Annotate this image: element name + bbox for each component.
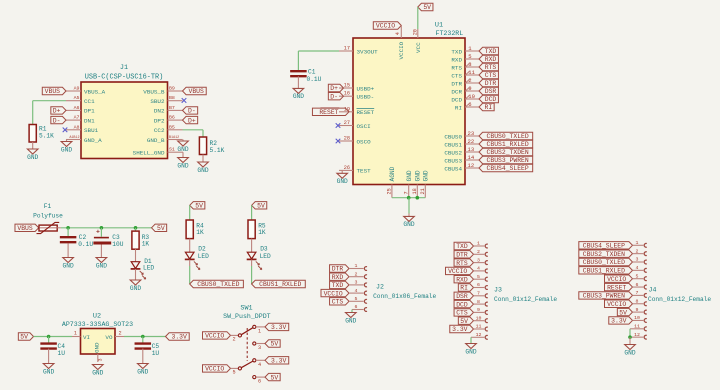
svg-text:GND: GND [177,146,188,153]
svg-text:5.1K: 5.1K [39,133,54,140]
svg-text:DCD: DCD [456,301,468,308]
svg-text:26: 26 [344,165,350,171]
svg-text:Conn_01x06_Female: Conn_01x06_Female [373,293,436,300]
svg-text:Conn_01x12_Female: Conn_01x12_Female [494,296,557,303]
svg-text:CTS: CTS [485,72,497,79]
svg-text:U1: U1 [435,22,443,30]
svg-text:25: 25 [387,188,393,194]
svg-text:4: 4 [258,362,261,368]
svg-text:LED: LED [198,253,209,260]
svg-text:7: 7 [477,291,480,297]
svg-text:3.3V: 3.3V [611,318,627,325]
svg-text:2: 2 [119,331,122,337]
svg-text:D3: D3 [260,245,268,252]
svg-text:B1A12: B1A12 [169,136,179,140]
svg-text:B8: B8 [169,95,175,101]
svg-text:8: 8 [636,298,639,304]
svg-text:3: 3 [355,280,358,286]
svg-text:GND: GND [137,368,148,375]
svg-text:1U: 1U [58,350,66,357]
svg-text:B7: B7 [169,105,175,111]
svg-text:5V: 5V [20,334,28,341]
svg-text:AGND: AGND [389,166,396,181]
svg-text:VBUS: VBUS [188,88,204,95]
svg-text:AP7333-33SAG_SOT23: AP7333-33SAG_SOT23 [62,321,133,328]
svg-text:DSR: DSR [485,88,497,95]
svg-text:6: 6 [258,379,261,385]
svg-text:TXD: TXD [332,282,344,289]
svg-text:10: 10 [468,93,475,100]
svg-text:CTS: CTS [456,310,468,317]
svg-text:20: 20 [413,29,419,35]
svg-text:2: 2 [232,336,235,342]
svg-text:RESET: RESET [607,284,626,291]
svg-text:VBUS_B: VBUS_B [143,88,165,95]
svg-text:28: 28 [344,136,350,142]
svg-text:CBUS3_PWREN: CBUS3_PWREN [487,157,529,164]
svg-text:USBD-: USBD- [357,94,375,101]
svg-text:GND: GND [27,154,38,161]
svg-text:14: 14 [468,154,475,161]
svg-text:D-: D- [330,93,338,100]
svg-text:GND: GND [465,348,476,355]
svg-text:C3: C3 [112,234,120,241]
svg-text:RXD: RXD [485,56,497,63]
svg-text:F1: F1 [44,203,52,210]
svg-text:GND: GND [423,170,430,181]
svg-text:RI: RI [485,104,493,111]
svg-text:13: 13 [468,146,475,153]
svg-text:DN1: DN1 [84,117,95,124]
svg-text:RI: RI [455,104,462,111]
svg-text:3.3V: 3.3V [271,324,287,331]
svg-text:1K: 1K [258,229,266,236]
svg-text:DP2: DP2 [154,117,165,124]
svg-text:B6: B6 [169,115,175,121]
svg-text:6: 6 [636,282,639,288]
svg-text:TXD: TXD [485,48,497,55]
svg-text:C2: C2 [79,234,87,241]
svg-text:CC1: CC1 [84,98,95,105]
svg-text:CBUS2_TXDEN: CBUS2_TXDEN [487,149,529,156]
svg-text:RXD: RXD [332,274,344,281]
svg-text:B5: B5 [169,124,175,130]
svg-text:DN2: DN2 [154,108,165,115]
svg-text:Conn_01x12_Female: Conn_01x12_Female [648,296,711,303]
svg-text:DP1: DP1 [84,108,95,115]
svg-text:B9: B9 [169,86,175,92]
svg-text:22: 22 [468,138,475,145]
svg-text:VI: VI [83,334,90,341]
svg-text:CBUS1: CBUS1 [444,141,462,148]
svg-text:J4: J4 [649,287,657,294]
svg-text:USBD+: USBD+ [357,85,375,92]
svg-text:5.1K: 5.1K [210,147,225,154]
svg-text:CBUS1_RXLED: CBUS1_RXLED [487,141,529,148]
svg-text:5: 5 [355,296,358,302]
svg-text:2: 2 [636,248,639,254]
svg-text:4: 4 [636,265,639,271]
svg-text:TXD: TXD [451,48,462,55]
svg-text:4: 4 [355,288,358,294]
svg-text:8: 8 [477,299,480,305]
svg-text:D+: D+ [188,117,196,124]
svg-text:5V: 5V [271,341,279,348]
svg-text:5V: 5V [195,203,203,210]
svg-text:5V: 5V [257,203,265,210]
svg-text:DCR: DCR [451,88,462,95]
svg-text:RXD: RXD [456,276,468,283]
svg-text:3.3V: 3.3V [271,358,287,365]
svg-text:23: 23 [468,130,475,137]
svg-text:DTR: DTR [456,252,468,259]
svg-text:OSCO: OSCO [357,138,372,145]
svg-text:VBUS: VBUS [45,88,61,95]
svg-text:1: 1 [258,328,261,334]
svg-text:18: 18 [412,188,418,194]
svg-text:GND: GND [61,146,72,153]
svg-text:3: 3 [636,257,639,263]
svg-text:GND: GND [345,317,356,324]
svg-text:4: 4 [395,32,401,35]
svg-text:CTS: CTS [451,72,462,79]
svg-text:1: 1 [477,241,480,247]
svg-text:C1: C1 [308,69,316,76]
svg-text:3V3OUT: 3V3OUT [357,48,379,55]
svg-text:5V: 5V [271,374,279,381]
svg-text:A1B12: A1B12 [69,136,79,140]
svg-text:DCD: DCD [451,96,462,103]
svg-text:4: 4 [477,266,480,272]
svg-text:6: 6 [355,304,358,310]
svg-text:GND: GND [43,368,54,375]
svg-text:12: 12 [476,332,482,338]
svg-text:VBUS_A: VBUS_A [84,88,106,95]
svg-text:3.3V: 3.3V [452,326,468,333]
svg-text:17: 17 [344,46,350,52]
svg-text:GND: GND [293,93,304,100]
svg-text:VO: VO [105,334,113,341]
svg-text:A6: A6 [74,105,80,111]
svg-text:Polyfuse: Polyfuse [33,212,63,219]
svg-text:U2: U2 [93,313,101,321]
svg-text:VCCIO: VCCIO [607,301,626,308]
svg-text:J2: J2 [376,284,384,291]
svg-text:16: 16 [344,91,350,97]
svg-text:A5: A5 [74,95,80,101]
svg-text:SBU1: SBU1 [84,127,99,134]
svg-text:3.3V: 3.3V [171,334,187,341]
svg-text:5V: 5V [460,318,468,325]
svg-text:3: 3 [97,358,103,361]
svg-text:RTS: RTS [451,64,462,71]
svg-text:CBUS3: CBUS3 [444,157,462,164]
svg-text:7: 7 [404,191,410,194]
svg-text:C5: C5 [152,343,160,350]
svg-text:LED: LED [143,265,154,272]
svg-text:D-: D- [53,117,61,124]
svg-text:0.1U: 0.1U [307,76,322,83]
svg-text:LED: LED [260,253,271,260]
svg-text:GND: GND [93,342,100,353]
svg-text:RESET: RESET [319,109,338,116]
svg-text:J3: J3 [494,287,502,294]
svg-text:10: 10 [634,315,640,321]
svg-text:9: 9 [636,307,639,313]
svg-text:15: 15 [344,83,350,89]
svg-text:VCCIO: VCCIO [205,366,224,373]
svg-text:DCD: DCD [485,96,497,103]
svg-text:VCCIO: VCCIO [448,268,467,275]
svg-text:DTR: DTR [485,80,497,87]
svg-text:5V: 5V [157,225,165,232]
svg-text:GND: GND [337,178,348,185]
svg-text:12: 12 [634,332,640,338]
svg-text:5: 5 [477,274,480,280]
svg-text:D2: D2 [198,245,206,252]
svg-text:VCCIO: VCCIO [205,333,224,340]
svg-text:A9: A9 [74,86,80,92]
svg-text:GND: GND [406,170,413,181]
svg-text:OSCI: OSCI [357,123,371,130]
svg-text:GND_B: GND_B [147,137,165,144]
svg-text:7: 7 [636,290,639,296]
svg-text:1: 1 [355,263,358,269]
svg-text:C4: C4 [58,343,66,350]
svg-text:1K: 1K [142,241,150,248]
svg-text:VCCIO: VCCIO [398,41,405,59]
svg-text:CTS: CTS [332,299,344,306]
svg-text:11: 11 [634,324,640,330]
svg-text:12: 12 [468,162,475,169]
svg-text:GND: GND [130,285,141,292]
svg-text:21: 21 [420,188,426,194]
svg-text:2: 2 [355,271,358,277]
svg-text:CBUS3_PWREN: CBUS3_PWREN [583,293,625,300]
svg-text:RI: RI [460,285,468,292]
svg-text:GND: GND [415,170,422,181]
svg-text:0.1U: 0.1U [78,241,93,248]
svg-text:RTS: RTS [485,64,497,71]
svg-text:11: 11 [468,69,475,76]
svg-text:GND: GND [624,349,635,356]
svg-text:CBUS0_TXLED: CBUS0_TXLED [583,259,625,266]
svg-text:5: 5 [468,53,471,60]
svg-text:RTS: RTS [456,260,468,267]
svg-text:VCC: VCC [415,42,422,53]
svg-text:GND_A: GND_A [84,137,102,144]
svg-text:3: 3 [477,257,480,263]
svg-text:5V: 5V [423,4,431,11]
svg-text:5: 5 [636,273,639,279]
svg-text:A8: A8 [74,124,80,130]
svg-text:FT232RL: FT232RL [436,30,464,37]
svg-text:27: 27 [344,120,350,126]
svg-text:D+: D+ [53,108,61,115]
svg-text:GND: GND [177,162,188,169]
svg-text:CBUS4_SLEEP: CBUS4_SLEEP [583,243,625,250]
svg-text:VBUS: VBUS [17,225,33,232]
svg-text:CBUS0: CBUS0 [444,133,462,140]
svg-text:DSR: DSR [456,293,468,300]
svg-text:DTR: DTR [451,80,462,87]
svg-text:1: 1 [74,331,77,337]
svg-text:10U: 10U [112,241,123,248]
svg-text:1U: 1U [152,350,160,357]
svg-text:A7: A7 [74,115,80,121]
svg-text:1: 1 [636,240,639,246]
svg-text:CBUS0_TXLED: CBUS0_TXLED [487,133,529,140]
svg-text:RESET: RESET [357,109,375,116]
svg-text:VCCIO: VCCIO [324,290,343,297]
svg-text:CC2: CC2 [154,127,165,134]
svg-text:D-: D- [188,108,196,115]
svg-text:GND: GND [403,221,414,228]
svg-text:5V: 5V [619,309,627,316]
svg-text:CBUS0_TXLED: CBUS0_TXLED [197,281,239,288]
svg-text:RXD: RXD [451,56,462,63]
svg-text:CBUS4_SLEEP: CBUS4_SLEEP [487,165,529,172]
svg-text:6: 6 [477,282,480,288]
svg-text:GND: GND [197,167,208,174]
svg-text:CBUS2: CBUS2 [444,149,462,156]
svg-text:D+: D+ [330,85,338,92]
svg-text:GND: GND [92,369,103,376]
svg-text:S1: S1 [169,147,175,153]
svg-text:R1: R1 [39,126,47,133]
svg-text:CBUS1_RXLED: CBUS1_RXLED [259,281,301,288]
svg-text:9: 9 [477,307,480,313]
svg-text:CBUS1_RXLED: CBUS1_RXLED [583,268,625,275]
svg-text:2: 2 [477,249,480,255]
svg-text:USB-C(CSP-USC16-TR): USB-C(CSP-USC16-TR) [85,74,164,82]
svg-text:+: + [96,228,100,235]
svg-text:TEST: TEST [357,168,372,175]
svg-text:SW1: SW1 [240,305,252,313]
svg-text:SBU2: SBU2 [150,98,165,105]
svg-text:CBUS2_TXDEN: CBUS2_TXDEN [583,251,625,258]
svg-text:J1: J1 [120,64,128,72]
svg-text:11: 11 [476,324,482,330]
svg-text:5: 5 [232,369,235,375]
svg-text:3: 3 [258,345,261,351]
svg-text:DTR: DTR [332,266,344,273]
svg-text:SW_Push_DPDT: SW_Push_DPDT [223,313,271,320]
svg-text:GND: GND [63,262,74,269]
svg-text:SHELL_GND: SHELL_GND [133,150,165,157]
svg-text:VCCIO: VCCIO [607,276,626,283]
svg-text:CBUS4: CBUS4 [444,165,462,172]
svg-text:GND: GND [96,262,107,269]
svg-text:TXD: TXD [456,243,468,250]
svg-text:R2: R2 [210,140,218,147]
svg-text:10: 10 [476,315,482,321]
svg-text:1K: 1K [196,229,204,236]
svg-text:VCCIO: VCCIO [376,23,395,30]
